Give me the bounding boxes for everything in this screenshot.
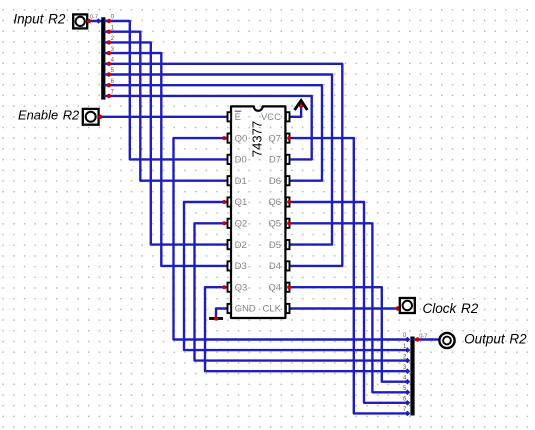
pin Q6 box [268, 197, 289, 208]
wire bus tap6 to D6 [105, 85, 322, 181]
junction dot output bus [415, 337, 419, 341]
wire out bus to output port [415, 338, 439, 340]
node input tap 5 [107, 68, 115, 77]
svg-text:Q1: Q1 [235, 197, 248, 208]
bus entry diamond out 3 [403, 365, 410, 374]
pin Q3 box [228, 282, 248, 293]
port Enable R2 [83, 109, 99, 125]
svg-text:Q6: Q6 [268, 197, 281, 208]
svg-text:Input R2: Input R2 [13, 12, 66, 27]
pin D4 box [269, 261, 290, 272]
bus entry diamond input [96, 18, 102, 24]
power symbol VCC arrow [295, 101, 308, 110]
wire bus tap4 to D4 [105, 64, 342, 266]
wire GND pin to ground [216, 309, 228, 319]
wire Q3 to out bus tap3 [205, 287, 409, 371]
pin GND box [228, 304, 256, 315]
pin D2 box [228, 240, 247, 251]
svg-text:Q2: Q2 [235, 219, 248, 230]
svg-text:74377: 74377 [250, 121, 265, 157]
bus entry diamond out 4 [403, 375, 410, 384]
pin dot Q7 [287, 136, 291, 140]
pin D7 box [269, 155, 290, 166]
wire bus tap1 to D1 [105, 32, 228, 181]
pin VCC box [261, 112, 290, 123]
svg-text:D5: D5 [269, 240, 281, 251]
wire Q0 to out bus tap0 [174, 138, 409, 339]
wire bus tap5 to D5 [105, 75, 332, 245]
pin dot Q0 [222, 136, 226, 140]
pin D0 box [228, 155, 247, 166]
pin Q7 box [268, 133, 289, 144]
svg-text:D1: D1 [235, 176, 247, 187]
svg-text:D3: D3 [235, 261, 247, 272]
node input tap 4 [107, 58, 115, 67]
pin Q0 box [228, 133, 248, 144]
pin CLK box [263, 304, 290, 315]
node input tap 7 [107, 90, 115, 99]
bus entry diamond out 5 [403, 386, 410, 395]
svg-text:0-7: 0-7 [419, 334, 427, 340]
pin Q5 box [268, 219, 289, 230]
port Input R2 [73, 14, 87, 28]
wire Q7 to out bus tap7 [289, 138, 408, 413]
node input tap 1 [107, 25, 115, 34]
pin Q2 box [228, 219, 248, 230]
svg-text:CLK: CLK [263, 304, 282, 315]
svg-text:Q5: Q5 [268, 219, 281, 230]
pin dot Q5 [287, 221, 291, 225]
svg-text:D7: D7 [269, 155, 281, 166]
wire VCC to power [289, 106, 301, 117]
svg-text:D4: D4 [269, 261, 281, 272]
input bus bar [101, 17, 105, 99]
pin dot Q4 [287, 285, 291, 289]
junction dot clock port [395, 306, 399, 310]
wire bus tap7 to D7 [105, 96, 312, 159]
node input tap 0 [107, 15, 115, 23]
port Clock R2 [400, 298, 415, 313]
svg-text:GND: GND [235, 304, 256, 315]
wire enable to E pin [100, 116, 228, 118]
pin dot Q2 [222, 221, 226, 225]
pin dot Q6 [287, 200, 291, 204]
ground symbol [209, 317, 223, 320]
node input tap 3 [107, 47, 115, 56]
svg-text:Q7: Q7 [268, 133, 281, 144]
port Output R2 [439, 333, 454, 348]
svg-text:E: E [235, 112, 241, 123]
svg-text:0-7: 0-7 [90, 14, 98, 20]
pin D3 box [228, 261, 247, 272]
wire Q1 to out bus tap1 [184, 202, 409, 350]
bus entry diamond out 7 [403, 407, 410, 416]
svg-text:VCC: VCC [261, 112, 281, 123]
wire CLK to clock port [289, 307, 397, 309]
wire Q6 to out bus tap6 [289, 202, 408, 403]
pin D5 box [269, 240, 290, 251]
junction dot input port [87, 19, 91, 23]
bus entry diamond out 6 [403, 397, 410, 406]
wire Q2 to out bus tap2 [195, 223, 409, 360]
junction dot enable port [98, 115, 102, 119]
wire bus tap0 to D0 [105, 21, 228, 159]
pin E box [228, 111, 242, 123]
wire bus tap2 to D2 [105, 42, 228, 244]
wire Q4 to out bus tap4 [289, 287, 408, 382]
pin D1 box [228, 176, 247, 187]
svg-text:Enable R2: Enable R2 [18, 108, 79, 123]
pin Q1 box [228, 197, 248, 208]
svg-text:Output R2: Output R2 [464, 332, 527, 347]
svg-text:Q3: Q3 [235, 282, 248, 293]
svg-text:Q4: Q4 [268, 282, 281, 293]
junction dot VCC power [299, 104, 303, 108]
wire input port to bus [89, 20, 102, 22]
junction dot ground [214, 316, 218, 320]
bus entry diamond out 1 [403, 344, 410, 353]
node input tap 6 [107, 79, 115, 88]
svg-text:D6: D6 [269, 176, 281, 187]
svg-text:D0: D0 [235, 155, 247, 166]
pin Q4 box [268, 282, 289, 293]
pin D6 box [269, 176, 290, 187]
svg-text:D2: D2 [235, 240, 247, 251]
wire Q5 to out bus tap5 [289, 223, 408, 392]
IC U1 74377 body [231, 106, 285, 318]
svg-text:Q0: Q0 [235, 133, 248, 144]
svg-text:Clock R2: Clock R2 [423, 301, 479, 316]
bus entry diamond out 2 [403, 354, 410, 363]
pin dot Q3 [222, 285, 226, 289]
pin dot Q1 [222, 200, 226, 204]
wire bus tap3 to D3 [105, 53, 228, 266]
output bus bar [410, 337, 414, 416]
node input tap 2 [107, 36, 115, 45]
bus entry diamond out 0 [403, 333, 410, 342]
